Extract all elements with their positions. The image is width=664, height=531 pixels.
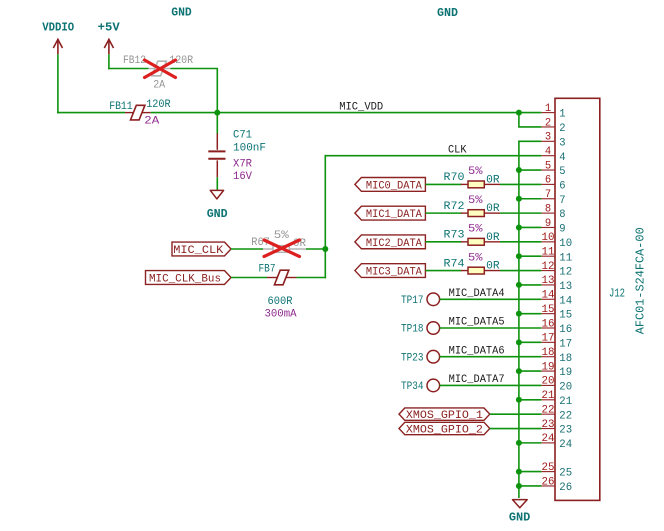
svg-text:5%: 5% bbox=[468, 224, 483, 236]
pin 1 of J12 bbox=[541, 103, 565, 121]
svg-text:7: 7 bbox=[559, 195, 565, 207]
junction bus pin 9 bbox=[516, 224, 522, 230]
svg-text:16: 16 bbox=[559, 324, 572, 336]
wire CLK to pin 4 bbox=[325, 155, 542, 157]
svg-text:MIC_DATA5: MIC_DATA5 bbox=[449, 317, 505, 329]
wire to pin 2 bbox=[518, 126, 541, 128]
svg-text:17: 17 bbox=[542, 333, 555, 345]
junction MIC_CLK bbox=[322, 246, 328, 252]
svg-text:J12: J12 bbox=[609, 287, 625, 301]
svg-text:14: 14 bbox=[542, 290, 555, 302]
svg-text:VDDIO: VDDIO bbox=[42, 22, 74, 35]
pin 8 of J12 bbox=[541, 203, 565, 221]
svg-text:15: 15 bbox=[559, 310, 572, 322]
svg-text:0R: 0R bbox=[486, 174, 500, 186]
ferrite bead FB12 (DNP) pin stubs bbox=[149, 68, 171, 70]
resistor R73 bbox=[461, 241, 500, 243]
junction bus pin 24 bbox=[516, 440, 522, 446]
junction bus pin 19 bbox=[516, 368, 522, 374]
pin 25 of J12 bbox=[541, 462, 572, 480]
svg-text:14: 14 bbox=[559, 295, 572, 307]
ground symbol (C71) bbox=[210, 190, 223, 199]
wire bus to pin 13 bbox=[519, 284, 542, 286]
svg-text:GND: GND bbox=[207, 207, 228, 221]
svg-text:R73: R73 bbox=[444, 230, 465, 242]
svg-text:CLK: CLK bbox=[448, 144, 467, 156]
wire XMOS_GPIO_1 to pin 22 bbox=[490, 413, 542, 415]
wire MIC_CLK_Bus to FB7 bbox=[231, 277, 267, 279]
wire R73 to pin bbox=[500, 241, 541, 243]
svg-text:1: 1 bbox=[545, 103, 552, 115]
pin 22 of J12 bbox=[541, 404, 572, 422]
junction bus pin 7 bbox=[516, 196, 522, 202]
wire CLK vertical bbox=[324, 155, 326, 278]
svg-text:MIC3_DATA: MIC3_DATA bbox=[366, 267, 422, 279]
ferrite bead FB7 pin stubs bbox=[267, 277, 296, 279]
junction bus pin 11 bbox=[516, 253, 522, 259]
test point TP18 bbox=[401, 322, 440, 336]
wire GND bus vertical bbox=[518, 141, 520, 498]
ferrite bead FB7 body bbox=[274, 270, 288, 285]
svg-text:4: 4 bbox=[559, 152, 566, 164]
pin 6 of J12 bbox=[541, 175, 565, 193]
hierarchical label MIC2_DATA bbox=[355, 235, 426, 250]
wire bus to pin 19 bbox=[519, 370, 542, 372]
svg-text:C71: C71 bbox=[233, 130, 252, 142]
hierarchical label MIC3_DATA bbox=[355, 264, 426, 279]
svg-text:TP17: TP17 bbox=[401, 295, 424, 307]
svg-text:12: 12 bbox=[542, 261, 555, 273]
svg-text:2: 2 bbox=[559, 123, 565, 135]
svg-text:0R: 0R bbox=[486, 232, 500, 244]
pin 7 of J12 bbox=[541, 189, 565, 207]
resistor R72 bbox=[461, 212, 500, 214]
svg-text:TP23: TP23 bbox=[401, 352, 424, 364]
svg-text:13: 13 bbox=[559, 281, 572, 293]
wire R74 to pin bbox=[500, 270, 541, 272]
pin 23 of J12 bbox=[541, 419, 572, 437]
svg-text:5%: 5% bbox=[468, 166, 483, 178]
wire branch down to rail bbox=[216, 69, 218, 113]
wire bus to pin 26 bbox=[519, 485, 542, 487]
svg-text:MIC_DATA6: MIC_DATA6 bbox=[449, 345, 505, 357]
wire bus to pin 17 bbox=[519, 341, 542, 343]
svg-text:20: 20 bbox=[542, 376, 555, 388]
test point TP17 bbox=[401, 293, 440, 307]
svg-text:MIC_DATA4: MIC_DATA4 bbox=[449, 288, 505, 300]
pin 2 of J12 bbox=[541, 117, 565, 135]
svg-text:18: 18 bbox=[559, 353, 572, 365]
ferrite bead FB11 body bbox=[131, 105, 145, 120]
test point TP34 bbox=[401, 379, 440, 393]
wire bus to pin 21 bbox=[519, 399, 542, 401]
svg-text:5%: 5% bbox=[468, 252, 483, 264]
svg-text:5%: 5% bbox=[274, 230, 289, 242]
pin 17 of J12 bbox=[541, 333, 572, 351]
svg-text:15: 15 bbox=[542, 304, 555, 316]
wire TP18 to pin bbox=[440, 327, 542, 329]
svg-text:11: 11 bbox=[559, 252, 572, 264]
wire FB12 to branch bbox=[171, 68, 219, 70]
svg-text:AFC01-S24FCA-00: AFC01-S24FCA-00 bbox=[633, 227, 647, 334]
pin 14 of J12 bbox=[541, 290, 572, 308]
svg-text:19: 19 bbox=[559, 367, 572, 379]
svg-text:MIC0_DATA: MIC0_DATA bbox=[366, 181, 422, 193]
svg-text:5: 5 bbox=[545, 160, 551, 172]
pin 19 of J12 bbox=[541, 361, 572, 379]
hierarchical label XMOS_GPIO_2 bbox=[399, 422, 490, 436]
svg-text:6: 6 bbox=[559, 181, 565, 193]
wire VDDIO down bbox=[57, 54, 59, 113]
svg-text:XMOS_GPIO_1: XMOS_GPIO_1 bbox=[406, 410, 483, 422]
wire MIC1_DATA to R72 bbox=[425, 212, 461, 214]
svg-text:22: 22 bbox=[542, 404, 555, 416]
svg-text:MIC2_DATA: MIC2_DATA bbox=[366, 238, 422, 250]
wire XMOS_GPIO_2 to pin 23 bbox=[490, 428, 542, 430]
junction rail to pin2 bbox=[516, 110, 522, 116]
svg-text:R70: R70 bbox=[444, 172, 465, 184]
pin 5 of J12 bbox=[541, 160, 565, 178]
wire bus to pin 3 bbox=[518, 140, 541, 142]
svg-text:22: 22 bbox=[559, 410, 572, 422]
wire TP17 to pin bbox=[440, 298, 542, 300]
svg-text:12: 12 bbox=[559, 267, 572, 279]
hierarchical label MIC_CLK bbox=[172, 242, 231, 257]
svg-text:MIC_CLK: MIC_CLK bbox=[173, 245, 223, 257]
junction bus pin 5 bbox=[516, 167, 522, 173]
svg-text:GND: GND bbox=[171, 6, 192, 20]
ferrite bead FB11 pin stubs bbox=[125, 112, 151, 114]
svg-text:R72: R72 bbox=[444, 201, 465, 213]
svg-text:25: 25 bbox=[542, 462, 555, 474]
wire R67 to junction bbox=[306, 248, 326, 250]
wire MIC3_DATA to R74 bbox=[425, 270, 461, 272]
pin 4 of J12 bbox=[541, 146, 565, 164]
power flag +5V bbox=[104, 39, 113, 55]
wire bus to pin 11 bbox=[519, 255, 542, 257]
svg-text:8: 8 bbox=[559, 209, 565, 221]
pin 10 of J12 bbox=[541, 232, 572, 250]
wire bus to pin 7 bbox=[519, 198, 542, 200]
svg-text:100nF: 100nF bbox=[233, 143, 266, 155]
wire to C71 bbox=[216, 113, 218, 134]
svg-text:0R: 0R bbox=[486, 261, 500, 273]
pin 13 of J12 bbox=[541, 275, 572, 293]
pin 12 of J12 bbox=[541, 261, 572, 279]
svg-text:16: 16 bbox=[542, 318, 555, 330]
pin 9 of J12 bbox=[541, 218, 565, 236]
svg-text:5%: 5% bbox=[468, 195, 483, 207]
wire MIC0_DATA to R70 bbox=[425, 183, 461, 185]
junction bus pin 25 bbox=[516, 469, 522, 475]
svg-text:18: 18 bbox=[542, 347, 555, 359]
svg-text:26: 26 bbox=[559, 482, 572, 494]
wire TP23 to pin bbox=[440, 356, 542, 358]
pin 20 of J12 bbox=[541, 376, 572, 394]
pin 21 of J12 bbox=[541, 390, 572, 408]
junction bus pin 21 bbox=[516, 397, 522, 403]
svg-text:9: 9 bbox=[545, 218, 551, 230]
resistor R74 bbox=[461, 270, 500, 272]
svg-text:17: 17 bbox=[559, 338, 572, 350]
wire C71 to ground bbox=[216, 177, 218, 190]
svg-text:MIC_VDD: MIC_VDD bbox=[339, 101, 383, 113]
svg-text:1: 1 bbox=[559, 109, 566, 121]
pin 26 of J12 bbox=[541, 476, 572, 494]
wire bus to pin 5 bbox=[519, 169, 542, 171]
wire FB7 to corner bbox=[296, 277, 326, 279]
svg-text:26: 26 bbox=[542, 476, 555, 488]
wire +5V to FB12 bbox=[108, 68, 148, 70]
svg-text:2: 2 bbox=[545, 117, 551, 129]
wire bus to pin 15 bbox=[519, 313, 542, 315]
svg-text:10: 10 bbox=[542, 232, 555, 244]
svg-text:GND: GND bbox=[437, 6, 458, 20]
svg-text:XMOS_GPIO_2: XMOS_GPIO_2 bbox=[406, 425, 483, 437]
svg-text:TP18: TP18 bbox=[401, 324, 424, 336]
junction bus pin 17 bbox=[516, 339, 522, 345]
svg-text:MIC_DATA7: MIC_DATA7 bbox=[449, 374, 505, 386]
wire MIC2_DATA to R73 bbox=[425, 241, 461, 243]
junction bus pin 13 bbox=[516, 282, 522, 288]
svg-text:11: 11 bbox=[542, 247, 555, 259]
wire MIC_VDD rail bbox=[151, 112, 542, 114]
svg-text:23: 23 bbox=[559, 425, 572, 437]
wire +5V down bbox=[108, 54, 110, 69]
svg-text:16V: 16V bbox=[233, 171, 252, 183]
svg-text:20: 20 bbox=[559, 382, 572, 394]
svg-text:GND: GND bbox=[509, 510, 531, 524]
ferrite bead FB12 body (DNP) bbox=[152, 61, 166, 76]
hierarchical label MIC1_DATA bbox=[355, 206, 426, 221]
svg-text:MIC1_DATA: MIC1_DATA bbox=[366, 209, 422, 221]
DNP cross over FB12 bbox=[145, 60, 176, 78]
svg-text:MIC_CLK_Bus: MIC_CLK_Bus bbox=[149, 274, 221, 286]
hierarchical label MIC_CLK_Bus bbox=[146, 271, 232, 286]
svg-text:2A: 2A bbox=[153, 80, 165, 92]
svg-text:0R: 0R bbox=[486, 203, 500, 215]
wire VDDIO to FB11 bbox=[57, 112, 125, 114]
svg-text:24: 24 bbox=[559, 439, 572, 451]
svg-text:13: 13 bbox=[542, 275, 555, 287]
pin 15 of J12 bbox=[541, 304, 572, 322]
resistor R67 (DNP) bbox=[263, 248, 306, 250]
svg-text:300mA: 300mA bbox=[265, 309, 297, 321]
svg-text:7: 7 bbox=[545, 189, 551, 201]
svg-text:600R: 600R bbox=[268, 296, 293, 308]
svg-text:X7R: X7R bbox=[233, 158, 252, 170]
svg-text:9: 9 bbox=[559, 224, 565, 236]
svg-text:21: 21 bbox=[542, 390, 555, 402]
wire R70 to pin bbox=[500, 183, 541, 185]
svg-text:6: 6 bbox=[545, 175, 551, 187]
svg-text:FB11: FB11 bbox=[109, 101, 133, 113]
svg-text:FB7: FB7 bbox=[259, 264, 276, 276]
svg-text:2A: 2A bbox=[144, 116, 159, 128]
hierarchical label XMOS_GPIO_1 bbox=[399, 408, 490, 422]
svg-text:3: 3 bbox=[545, 132, 551, 144]
pin 11 of J12 bbox=[541, 247, 572, 265]
wire MIC_CLK to R67 bbox=[231, 248, 263, 250]
wire bus to pin 24 bbox=[519, 442, 542, 444]
svg-text:21: 21 bbox=[559, 396, 572, 408]
svg-text:23: 23 bbox=[542, 419, 555, 431]
pin 24 of J12 bbox=[541, 433, 572, 451]
svg-text:10: 10 bbox=[559, 238, 572, 250]
connector J12 body bbox=[555, 98, 600, 500]
hierarchical label MIC0_DATA bbox=[355, 178, 426, 193]
svg-text:19: 19 bbox=[542, 361, 555, 373]
svg-text:5: 5 bbox=[559, 166, 565, 178]
svg-text:TP34: TP34 bbox=[401, 381, 424, 393]
pin 3 of J12 bbox=[541, 132, 565, 150]
svg-text:120R: 120R bbox=[146, 99, 171, 111]
ground symbol (bus bottom) bbox=[513, 500, 528, 508]
pin 16 of J12 bbox=[541, 318, 572, 336]
svg-text:24: 24 bbox=[542, 433, 555, 445]
resistor R70 bbox=[461, 183, 500, 185]
wire pin1 to pin2 drop bbox=[518, 113, 520, 127]
svg-text:FB12: FB12 bbox=[123, 55, 146, 67]
svg-text:3: 3 bbox=[559, 137, 565, 149]
wire bus to pin 25 bbox=[519, 471, 542, 473]
wire bus to pin 9 bbox=[519, 226, 542, 228]
junction bus pin 15 bbox=[516, 311, 522, 317]
svg-text:+5V: +5V bbox=[98, 22, 120, 35]
svg-text:25: 25 bbox=[559, 468, 572, 480]
power flag VDDIO bbox=[53, 39, 62, 55]
wire R72 to pin bbox=[500, 212, 541, 214]
svg-text:R74: R74 bbox=[444, 258, 465, 270]
test point TP23 bbox=[401, 350, 440, 364]
pin 18 of J12 bbox=[541, 347, 572, 365]
junction bus pin 26 bbox=[516, 483, 522, 489]
svg-text:4: 4 bbox=[545, 146, 552, 158]
wire TP34 to pin bbox=[440, 384, 542, 386]
DNP cross over R67 bbox=[264, 240, 300, 257]
junction rail/branch/C71 bbox=[214, 110, 220, 116]
svg-text:8: 8 bbox=[545, 203, 551, 215]
